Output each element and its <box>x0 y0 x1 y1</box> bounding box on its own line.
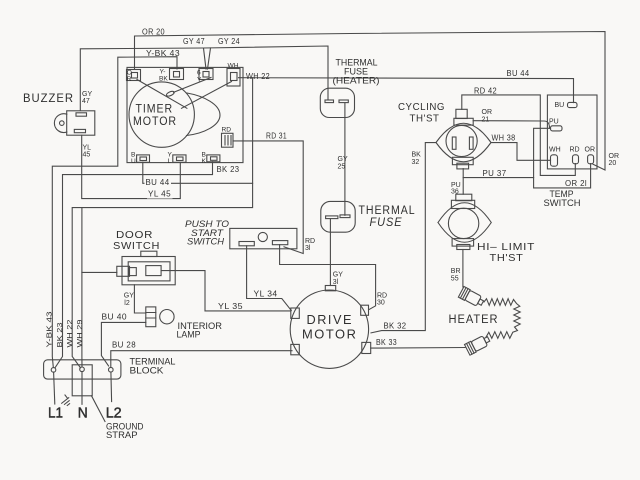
svg-text:25: 25 <box>338 163 346 170</box>
svg-text:YL 35: YL 35 <box>218 302 243 311</box>
terminal WH (timer top-right) <box>227 69 240 87</box>
wire N lead <box>81 372 83 405</box>
wire neutral bus drop (WH 22 down to terminal block N) <box>72 78 252 368</box>
cycling thermostat lens <box>436 123 491 162</box>
cycling thermostat side bar right <box>469 137 473 149</box>
svg-text:OR: OR <box>482 109 493 116</box>
wire L1 lead <box>54 372 55 404</box>
drive motor upper-left terminal <box>291 308 300 318</box>
wire RD 30 (push-start right terminal to motor upper right) <box>280 245 376 310</box>
wire junction funnel at 6Y terminal <box>204 48 211 69</box>
temp switch BU terminal <box>568 102 578 107</box>
interior lamp socket <box>146 307 156 327</box>
cycling thermostat top terminal <box>456 109 467 118</box>
temp switch box <box>547 95 597 169</box>
timer motor circle <box>129 82 194 147</box>
wire GY 25 (thermal fuse heater to thermal fuse) <box>344 104 346 216</box>
heater element zigzag <box>484 299 520 339</box>
svg-text:l2: l2 <box>124 300 130 307</box>
terminal RD (timer right) <box>222 133 234 147</box>
terminal BU (timer bottom) <box>137 155 150 162</box>
svg-text:BU 44: BU 44 <box>146 178 170 187</box>
svg-text:BLOCK: BLOCK <box>130 366 164 376</box>
terminal Y-BK (timer top) <box>170 69 184 80</box>
hi-limit thermostat bottom terminal <box>452 239 474 247</box>
heater upper lug <box>458 287 485 309</box>
svg-text:BU 28: BU 28 <box>112 341 136 350</box>
wire WH 38 (cycling right point to temp switch WH terminal) <box>491 143 550 161</box>
buzzer terminal bottom <box>74 129 85 132</box>
terminal block screw N <box>80 367 85 372</box>
wire BK 33 (motor lower right to heater lug) <box>371 347 465 350</box>
svg-text:BK 33: BK 33 <box>376 338 397 347</box>
heater lower lug <box>465 334 492 356</box>
thermal fuse (heater) contact right <box>339 100 348 103</box>
svg-text:30: 30 <box>377 300 385 307</box>
wire GY 12 (door switch to interior lamp) <box>134 285 146 313</box>
svg-text:3l: 3l <box>333 279 339 286</box>
svg-text:21: 21 <box>482 116 490 123</box>
svg-text:STRAP: STRAP <box>106 430 138 440</box>
thermal fuse contact right <box>340 215 350 218</box>
svg-text:CYCLING: CYCLING <box>398 101 445 113</box>
svg-text:THERMAL: THERMAL <box>359 205 416 217</box>
wire WH 29 (neutral bus to door switch and terminal block N) <box>81 208 83 367</box>
svg-text:OR 2l: OR 2l <box>565 179 587 188</box>
svg-text:PU 37: PU 37 <box>483 169 507 178</box>
wire YL 34 (push-start left terminal to motor upper left) <box>247 246 292 311</box>
terminal block screw L1 <box>51 368 56 373</box>
drive motor upper-right terminal <box>361 305 369 315</box>
svg-text:FUSE: FUSE <box>370 217 403 229</box>
svg-text:WH 38: WH 38 <box>492 134 516 143</box>
svg-text:BK 23: BK 23 <box>57 322 64 347</box>
drive motor circle <box>290 290 368 368</box>
label YL 45 at timer <box>147 190 173 199</box>
terminal YL (timer bottom) <box>173 155 186 162</box>
timer contact arm from OR terminal <box>137 80 187 109</box>
svg-text:GY 47: GY 47 <box>183 37 205 46</box>
ground strap plate <box>72 365 92 396</box>
wire BU 44 top run (neutral bus from timer WH terminal to temp switch BU terminal) <box>239 78 574 103</box>
svg-text:HEATER: HEATER <box>449 314 499 326</box>
svg-text:WH 22: WH 22 <box>246 72 270 81</box>
timer contact arm from WH terminal <box>182 82 232 109</box>
svg-text:N: N <box>78 405 88 422</box>
timer cam lobe <box>187 93 221 136</box>
svg-text:BR: BR <box>451 268 461 275</box>
label BU 44 at timer <box>145 179 172 187</box>
svg-text:Y-BK 43: Y-BK 43 <box>146 49 180 58</box>
svg-text:OR 20: OR 20 <box>142 28 165 37</box>
svg-text:TH'ST: TH'ST <box>410 113 440 125</box>
terminal block body <box>44 360 121 379</box>
svg-text:(HEATER): (HEATER) <box>333 76 380 86</box>
svg-text:32: 32 <box>412 159 420 166</box>
svg-text:RD: RD <box>377 293 387 300</box>
wire BU 44 (timer BU terminal to neutral bus vertical) <box>143 162 253 183</box>
terminal BK (timer bottom) <box>207 155 220 162</box>
svg-text:BK 23: BK 23 <box>217 165 240 174</box>
svg-text:L: L <box>168 158 172 165</box>
svg-text:R: R <box>127 76 132 83</box>
wire BK 32 (cycling left point down to drive motor) <box>371 143 436 333</box>
svg-text:SWITCH: SWITCH <box>544 198 581 208</box>
thermal fuse body <box>321 201 355 232</box>
wire OR 21 lower (temp switch OR terminal down around) <box>534 164 591 188</box>
svg-text:U: U <box>131 158 136 165</box>
push to start switch box <box>230 228 297 248</box>
svg-text:L1: L1 <box>48 405 63 422</box>
buzzer body <box>67 111 95 135</box>
thermal fuse (heater) body <box>320 88 354 117</box>
svg-text:WH 29: WH 29 <box>77 319 84 347</box>
door switch outer box <box>122 257 175 285</box>
cycling thermostat bottom terminal <box>452 157 473 164</box>
door switch inner box <box>128 262 170 281</box>
svg-text:RD 42: RD 42 <box>474 87 497 96</box>
svg-text:20: 20 <box>609 160 617 167</box>
drive motor lower-left terminal <box>291 344 300 354</box>
svg-text:BU 40: BU 40 <box>102 313 128 322</box>
svg-text:Y-BK 43: Y-BK 43 <box>47 311 54 347</box>
svg-text:3l: 3l <box>305 245 311 252</box>
svg-text:GY: GY <box>333 272 343 279</box>
svg-text:PU: PU <box>549 119 559 126</box>
svg-text:K: K <box>202 158 207 165</box>
svg-text:Y-: Y- <box>160 69 166 76</box>
wire RD 31 (timer RD terminal to push-to-start switch) <box>233 141 303 254</box>
timer contact arm from 6Y terminal <box>174 78 211 93</box>
svg-text:TIMER: TIMER <box>136 104 174 116</box>
svg-text:GY 24: GY 24 <box>218 37 240 46</box>
svg-text:WH 22: WH 22 <box>67 319 74 347</box>
svg-text:SWITCH: SWITCH <box>113 240 160 252</box>
svg-text:GY: GY <box>124 293 134 300</box>
thermal fuse contact left <box>326 216 338 219</box>
push to start terminal right <box>272 241 287 245</box>
wire BU 28 (terminal block L2 to motor lower left) <box>111 351 292 368</box>
svg-text:BK 32: BK 32 <box>384 322 407 331</box>
svg-text:WH: WH <box>228 63 239 70</box>
cycling thermostat disc <box>446 125 477 156</box>
temp switch RD terminal <box>573 155 579 164</box>
wire PU 37 (cycling bottom to temp switch PU terminal) <box>463 128 550 177</box>
svg-text:RD: RD <box>570 147 580 154</box>
svg-text:45: 45 <box>83 152 91 159</box>
svg-text:L2: L2 <box>106 405 122 422</box>
wire Y-BK 43 (timer Y-BK terminal down left side to terminal block L1) <box>52 57 177 368</box>
svg-text:LAMP: LAMP <box>177 330 201 340</box>
drive motor top terminal <box>325 286 335 291</box>
terminal OR (timer top-left) <box>127 70 141 81</box>
hi-limit thermostat top terminal <box>456 194 472 201</box>
interior lamp bulb <box>160 310 174 324</box>
wire GY 31 (thermal fuse to drive motor top) <box>329 219 331 286</box>
temp switch OR terminal <box>588 155 594 164</box>
buzzer mounting tab <box>54 114 66 133</box>
wire BK 23 (timer BK terminal down left side to terminal block L1) <box>55 162 212 368</box>
svg-text:DRIVE: DRIVE <box>307 313 354 327</box>
svg-text:RD: RD <box>305 238 315 245</box>
buzzer mounting hole <box>60 121 65 126</box>
svg-text:MOTOR: MOTOR <box>133 116 177 128</box>
wire BR 55 (hi-limit bottom to heater lug) <box>462 250 464 288</box>
door switch top tab <box>141 251 157 256</box>
timer box <box>127 67 243 162</box>
door switch left plug <box>117 266 130 276</box>
hi-limit thermostat lens <box>438 203 491 243</box>
svg-text:47: 47 <box>82 98 90 105</box>
wire door switch feed <box>82 271 117 273</box>
svg-text:BK: BK <box>412 152 422 159</box>
svg-text:MOTOR: MOTOR <box>302 328 358 342</box>
svg-text:YL 45: YL 45 <box>148 190 171 199</box>
ground strap pointer <box>92 396 106 422</box>
svg-text:6: 6 <box>197 70 201 77</box>
cycling thermostat side bar left <box>452 137 456 149</box>
svg-text:GY: GY <box>338 156 348 163</box>
wire YL 35 (door switch to motor upper left) <box>161 271 291 311</box>
wire PU 36 (cycling bottom to hi-limit top) <box>462 169 464 195</box>
door switch contact <box>146 266 161 276</box>
wire L2 lead <box>110 372 113 402</box>
svg-text:TH'ST: TH'ST <box>490 252 524 264</box>
svg-text:SWITCH: SWITCH <box>187 237 225 247</box>
svg-text:BUZZER: BUZZER <box>23 93 74 105</box>
svg-text:BU: BU <box>555 102 565 109</box>
thermal fuse (heater) contact left <box>325 100 334 103</box>
temp switch PU terminal <box>551 126 563 131</box>
svg-text:WH: WH <box>549 147 561 154</box>
terminal block screw L2 <box>109 367 114 372</box>
wire BU 40 (lamp to terminal block L2) <box>101 322 145 366</box>
temp switch WH terminal <box>551 155 558 166</box>
hi-limit thermostat disc <box>448 208 478 238</box>
svg-text:RD 31: RD 31 <box>266 132 287 141</box>
wire OR 21 (cycling top flange to temp switch PU terminal) <box>473 121 550 129</box>
terminal 6Y (timer top) <box>199 69 213 80</box>
svg-text:BK: BK <box>159 76 168 83</box>
svg-text:YL: YL <box>83 145 92 152</box>
buzzer terminal top <box>76 113 87 116</box>
svg-text:Y: Y <box>197 77 202 84</box>
drive motor lower-right terminal <box>362 342 371 353</box>
ground symbol <box>59 394 72 407</box>
svg-text:OR: OR <box>585 147 596 154</box>
push to start terminal left <box>239 242 254 246</box>
timer contact oval <box>166 90 175 97</box>
svg-text:RD: RD <box>222 127 232 134</box>
svg-text:BU 44: BU 44 <box>507 69 530 78</box>
wire YL 45 (buzzer bottom to timer YL terminal) <box>82 135 181 198</box>
wire GY 47 / GY 24 (buzzer to 6Y terminal to thermal fuse) <box>80 46 328 111</box>
svg-text:YL 34: YL 34 <box>254 290 278 299</box>
svg-text:OR: OR <box>609 153 620 160</box>
push to start button <box>258 232 267 241</box>
wire OR 20 (timer to temp switch OR terminal, top run) <box>135 32 606 171</box>
svg-text:55: 55 <box>451 275 459 282</box>
wire RD 42 (cycling top to temp switch RD terminal) <box>462 95 576 175</box>
